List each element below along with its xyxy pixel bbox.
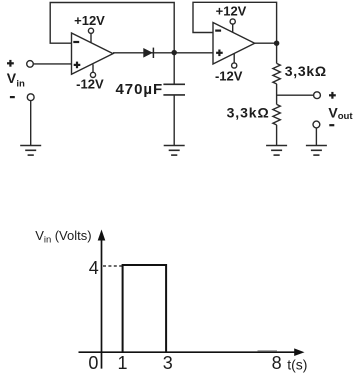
svg-text:out: out <box>338 111 354 122</box>
svg-text:V: V <box>35 228 44 243</box>
svg-text:in: in <box>16 79 25 90</box>
svg-text:(Volts): (Volts) <box>55 228 92 243</box>
svg-text:3,3kΩ: 3,3kΩ <box>227 105 270 121</box>
svg-text:+12V: +12V <box>74 13 105 28</box>
svg-text:8: 8 <box>272 353 282 373</box>
svg-text:4: 4 <box>89 258 99 278</box>
svg-text:-12V: -12V <box>215 68 243 83</box>
svg-text:0: 0 <box>88 353 98 373</box>
svg-text:V: V <box>7 70 17 86</box>
svg-text:-12V: -12V <box>76 77 104 92</box>
svg-text:1: 1 <box>117 353 127 373</box>
svg-text:470µF: 470µF <box>116 81 164 98</box>
svg-text:3,3kΩ: 3,3kΩ <box>285 63 327 79</box>
svg-text:3: 3 <box>163 353 173 373</box>
svg-text:in: in <box>44 235 51 246</box>
svg-text:t(s): t(s) <box>287 356 307 372</box>
svg-text:+12V: +12V <box>216 3 247 18</box>
